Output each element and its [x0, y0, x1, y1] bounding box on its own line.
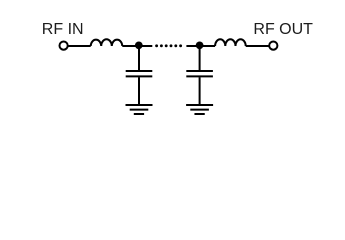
- wire: [122, 45, 139, 47]
- ground 1: [126, 105, 153, 114]
- wire: [186, 45, 199, 47]
- wire: [200, 45, 216, 47]
- node junction 2: [196, 41, 204, 49]
- ground 2: [186, 105, 213, 114]
- inductor L1: [91, 39, 123, 46]
- svg-text:RF OUT: RF OUT: [253, 21, 313, 38]
- wire: [142, 45, 152, 47]
- wire: [68, 45, 91, 47]
- dotted wire (continuation): [155, 44, 182, 47]
- wire: [246, 45, 270, 47]
- capacitor C1: [126, 71, 153, 76]
- node junction 1: [135, 41, 143, 49]
- inductor L2: [215, 39, 246, 46]
- terminal RF IN: [60, 42, 68, 50]
- svg-text:RF IN: RF IN: [42, 21, 84, 38]
- wire: [199, 77, 201, 104]
- terminal RF OUT: [269, 42, 277, 50]
- capacitor C2: [186, 71, 213, 76]
- wire: [138, 77, 140, 104]
- wire: [199, 46, 201, 70]
- wire: [138, 46, 140, 70]
